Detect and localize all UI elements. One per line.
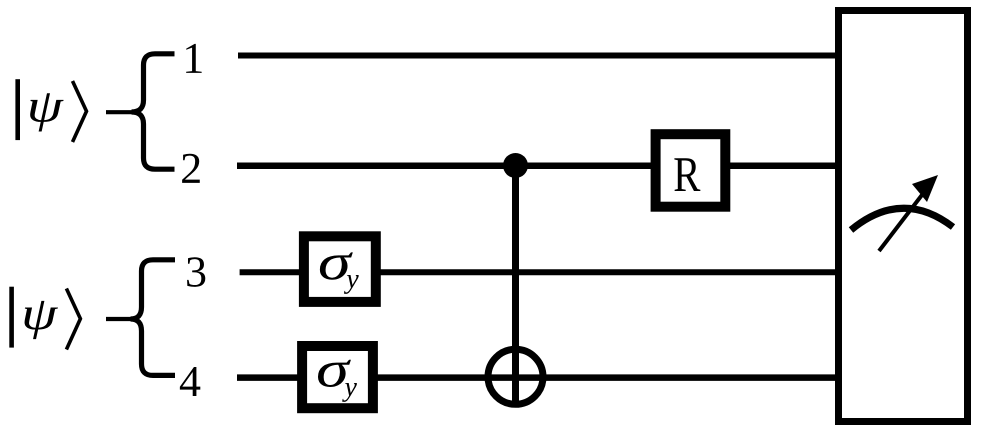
node label 2 [182, 154, 200, 183]
wire 4 [237, 374, 840, 381]
node label 4 [180, 367, 200, 396]
label ket psi (top) [15, 79, 86, 142]
measurement box [839, 11, 968, 422]
meter needle [879, 191, 925, 251]
meter arc [851, 208, 953, 230]
wire: dash from ket to brace (bottom) [106, 317, 133, 321]
node control dot on wire 2 [503, 153, 528, 178]
brace for wires 1-2 [132, 54, 175, 169]
CNOT target circle on wire 4 [488, 349, 543, 404]
wire 3 [240, 269, 840, 275]
gate sigma_y box on wire 3 [304, 236, 376, 302]
wire 1 [238, 53, 840, 59]
gate R box [656, 134, 726, 207]
node label 3 [187, 257, 205, 287]
brace for wires 3-4 [131, 260, 176, 376]
wire 2 [237, 162, 840, 169]
meter arrowhead [912, 175, 938, 202]
label ket psi (bottom) [9, 287, 80, 350]
wire: dash from ket to brace (top) [106, 110, 134, 114]
wire: CNOT vertical control line [512, 166, 519, 405]
gate sigma_y box on wire 4 [302, 346, 373, 408]
node label 1 [186, 44, 201, 73]
